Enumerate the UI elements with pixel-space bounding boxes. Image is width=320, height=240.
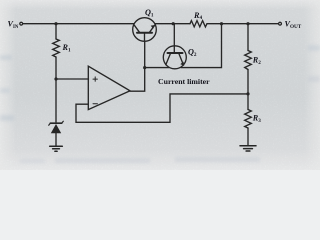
node: feedback divider junction [246,92,249,95]
wire: left vertical Vin node down to R1 [55,24,57,39]
ground (R3) [240,146,256,151]
wire: rail from R4 to Vout terminal [207,23,278,25]
wire: rail from Q1 emitter to R4 [155,23,190,25]
wire: R3 to ground [247,128,249,146]
node: R2 branch junction [246,22,249,25]
node: R1 branch junction [54,22,57,25]
wire: + input lead [56,78,89,80]
ghost print-through smudges [0,45,320,163]
resistor R4 (current sense) [190,21,207,27]
zener diode D1 (reference) [49,121,64,146]
resistor R1 [53,39,60,57]
resistor R2 [245,51,252,70]
wire: Q2 collector to Q1 base line [145,67,169,69]
node: Q2 base junction [172,22,175,25]
terminal Vout [279,22,282,25]
wire: Q2 emitter to output side of R4 [181,24,222,68]
node: reference to op-amp + input [54,77,57,80]
wire: R2 to feedback node [247,70,249,110]
wire: op-amp output to Q1 base [130,41,145,91]
wire: R1 to zener [55,57,57,122]
resistor R3 [245,110,252,129]
transistor Q2 (current limiter) [163,24,186,69]
wire: output node down through R2 [247,24,249,51]
terminal Vin [20,22,23,25]
paper background [0,0,320,170]
wire: feedback from divider to op-amp inverting input [76,94,248,122]
transistor Q1 (pass transistor) [133,18,157,42]
node: Q2 emitter return junction [220,22,223,25]
op-amp U1 [88,66,130,109]
node: Q2 collector junction [143,66,146,69]
wire: top rail from Vin to Q1 [23,23,134,25]
ground (zener) [50,146,63,151]
svg-text:Current limiter: Current limiter [158,77,210,86]
